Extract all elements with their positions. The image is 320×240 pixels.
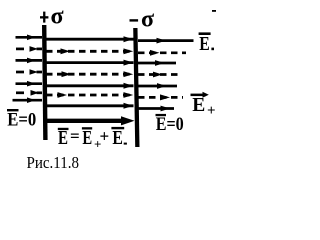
svg-text:σ: σ [141,7,154,33]
gap resultant field line E (bold, big arrow) [46,116,135,125]
left outside field line 6 (dashed E-) [16,90,42,96]
svg-text:E: E [199,33,210,55]
svg-text:E=0: E=0 [156,114,184,135]
right outside field line 4 (dashed) [138,72,182,78]
svg-text:E: E [58,127,68,149]
gap field line 3 (solid E+) [46,60,134,66]
left outside field line 1 (solid E+) [16,35,43,41]
gap field line 1 (solid E+) [46,36,134,42]
right outside field line 3 (solid) [138,60,176,66]
left outside field line 7 (solid E+) [13,97,43,103]
right outside field line 1 (solid) with label E [138,38,194,44]
svg-text:E: E [192,94,205,116]
svg-text:+: + [100,127,110,146]
gap field line 2 (dashed E-) [46,48,134,54]
left outside field line 2 (dashed E-) [16,46,42,52]
svg-text:=: = [70,127,80,146]
right outside field line 2 (dashed) [138,50,186,56]
plate +σ (left plate) [42,25,48,140]
gap field line 7 (solid E+) [46,103,134,109]
label +σ plus sign [40,12,48,23]
label −σ minus sign [130,19,139,21]
label E-bar (top right) [199,32,214,55]
label E=0 (right outside) [156,114,184,135]
formula E = E+ + E- (below resultant line) [58,127,127,152]
svg-text:+: + [207,103,216,119]
stray dash top right corner [212,10,216,12]
left outside field line 5 (solid E+) [16,81,43,87]
svg-text:σ: σ [51,4,64,30]
gap field line 5 (solid E+) [46,83,134,89]
label E-bar-plus (right, with vector arrow bar) [191,92,216,119]
right outside field line 6 (dashed) [138,94,183,100]
right outside field line 5 (solid) [138,83,177,89]
right outside field line 7 (solid) [138,106,174,112]
svg-text:Рис.11.8: Рис.11.8 [27,153,80,172]
gap field line 6 (dashed E-) [46,92,134,98]
svg-text:E=0: E=0 [7,109,36,130]
plate −σ (right plate) [133,28,139,147]
left outside field line 4 (dashed E-) [16,69,42,75]
svg-text:E: E [82,127,92,149]
left outside field line 3 (solid E+) [16,58,43,64]
label E=0 (left outside) [7,109,36,130]
gap field line 4 (dashed E-) [46,71,134,77]
svg-text:E: E [112,127,123,149]
